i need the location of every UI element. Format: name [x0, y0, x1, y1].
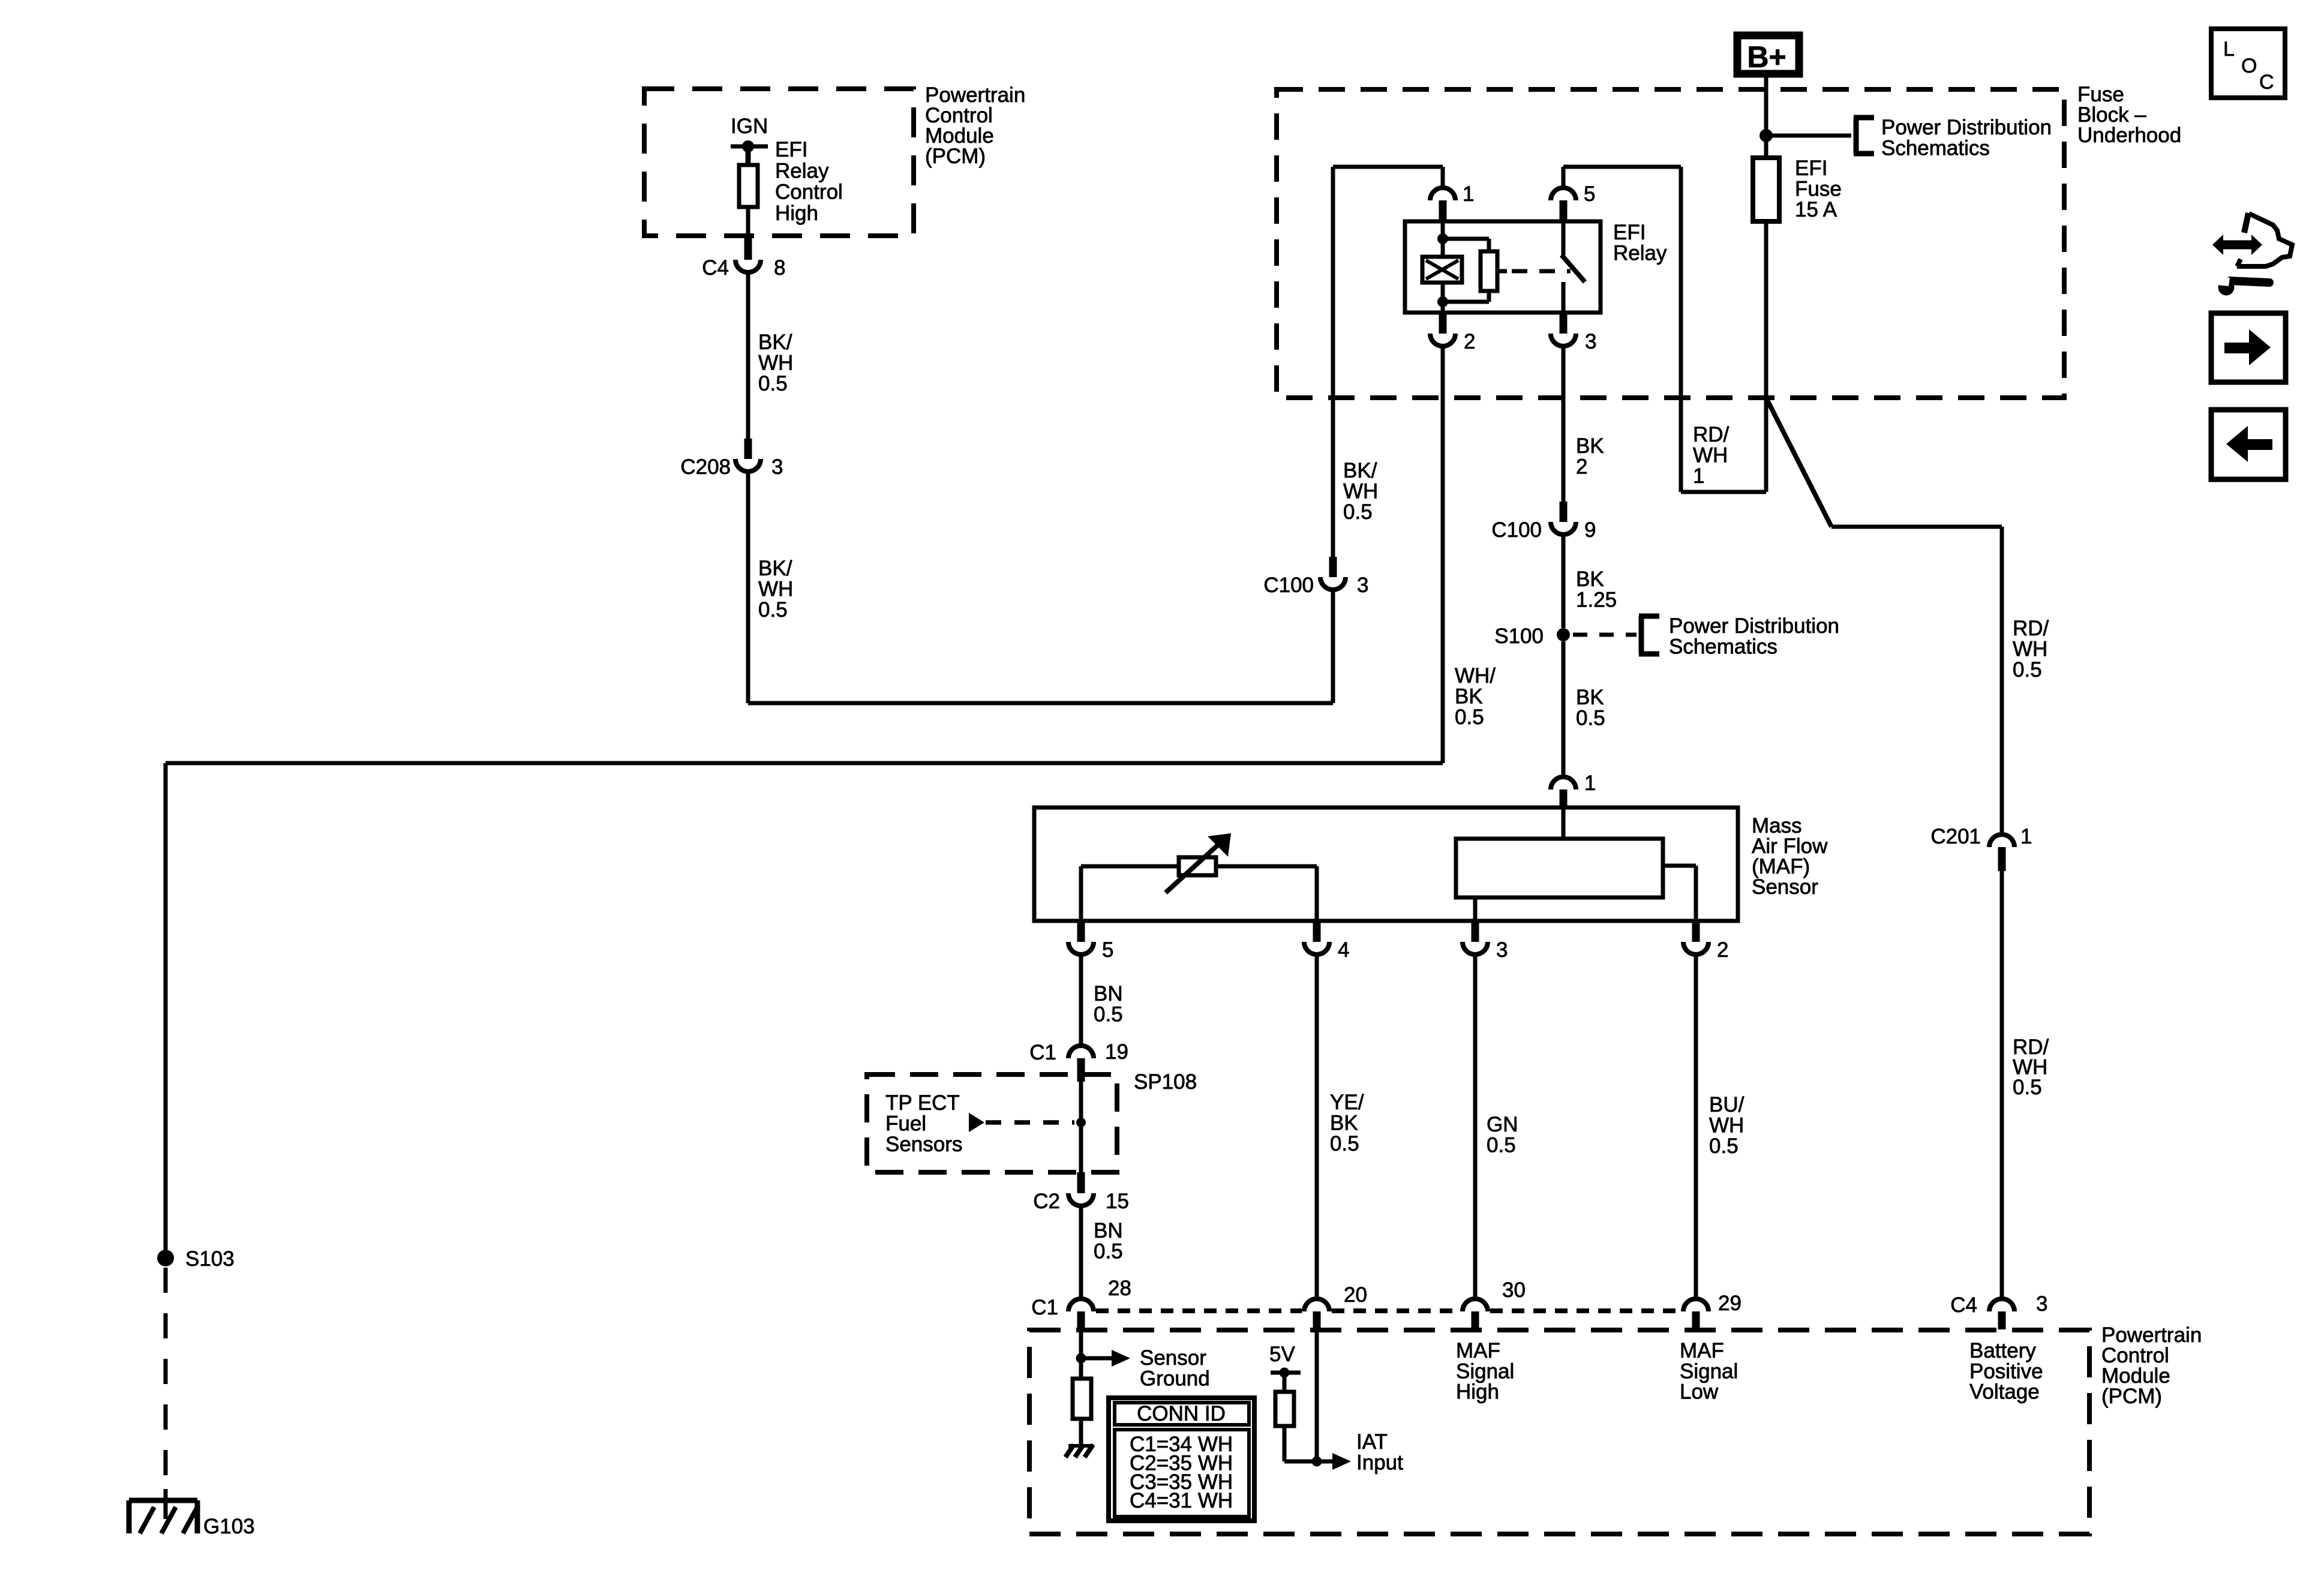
svg-text:Underhood: Underhood: [2077, 124, 2181, 147]
svg-text:0.5: 0.5: [1576, 707, 1605, 730]
svg-text:9: 9: [1584, 518, 1596, 542]
svg-text:Fuse: Fuse: [1795, 178, 1842, 201]
svg-text:Input: Input: [1356, 1451, 1403, 1475]
svg-text:CONN ID: CONN ID: [1137, 1402, 1226, 1425]
svg-text:1: 1: [1693, 464, 1704, 488]
svg-text:Sensors: Sensors: [885, 1133, 962, 1156]
svg-text:High: High: [775, 202, 818, 225]
svg-text:L: L: [2223, 38, 2235, 61]
svg-text:0.5: 0.5: [1487, 1134, 1516, 1157]
svg-text:0.5: 0.5: [758, 372, 788, 395]
svg-text:Sensor: Sensor: [1752, 875, 1818, 899]
svg-text:0.5: 0.5: [2013, 1076, 2042, 1099]
svg-text:BK/: BK/: [758, 557, 792, 580]
svg-text:MAF: MAF: [1680, 1339, 1724, 1362]
svg-text:BK: BK: [1330, 1112, 1358, 1135]
svg-text:C100: C100: [1491, 518, 1542, 542]
svg-text:Power Distribution: Power Distribution: [1881, 116, 2052, 139]
svg-text:WH: WH: [1693, 444, 1728, 467]
svg-text:O: O: [2241, 55, 2257, 77]
svg-text:0.5: 0.5: [1094, 1003, 1123, 1026]
svg-text:2: 2: [1576, 455, 1587, 479]
svg-text:Signal: Signal: [1680, 1359, 1738, 1383]
svg-text:C201: C201: [1930, 825, 1981, 848]
svg-text:0.5: 0.5: [2013, 658, 2042, 682]
svg-text:S100: S100: [1494, 625, 1544, 648]
svg-text:2: 2: [1717, 938, 1728, 962]
svg-text:S103: S103: [185, 1247, 235, 1271]
svg-text:BU/: BU/: [1709, 1093, 1744, 1116]
svg-text:RD/: RD/: [1693, 423, 1730, 446]
svg-text:20: 20: [1344, 1283, 1367, 1307]
svg-text:SP108: SP108: [1134, 1070, 1197, 1094]
svg-text:3: 3: [1585, 330, 1596, 353]
svg-text:15: 15: [1106, 1190, 1129, 1213]
svg-text:Sensor: Sensor: [1140, 1346, 1206, 1370]
svg-text:Relay: Relay: [1613, 242, 1667, 265]
svg-text:RD/: RD/: [2013, 617, 2049, 640]
svg-text:Power Distribution: Power Distribution: [1669, 614, 1839, 638]
svg-text:8: 8: [774, 256, 785, 280]
svg-text:28: 28: [1108, 1277, 1131, 1300]
svg-text:3: 3: [1496, 938, 1508, 962]
svg-text:(PCM): (PCM): [925, 145, 986, 168]
svg-text:BK: BK: [1576, 434, 1604, 458]
svg-text:Signal: Signal: [1456, 1359, 1514, 1383]
svg-text:30: 30: [1502, 1278, 1526, 1302]
svg-text:29: 29: [1718, 1292, 1742, 1315]
svg-text:19: 19: [1105, 1040, 1128, 1064]
svg-text:MAF: MAF: [1456, 1339, 1500, 1362]
svg-text:15 A: 15 A: [1795, 198, 1837, 221]
svg-text:1: 1: [1584, 772, 1596, 795]
svg-text:Voltage: Voltage: [1969, 1380, 2040, 1404]
svg-text:High: High: [1456, 1380, 1499, 1404]
svg-text:C2: C2: [1033, 1190, 1060, 1213]
svg-text:3: 3: [771, 455, 783, 479]
svg-text:WH: WH: [758, 578, 793, 601]
svg-text:Relay: Relay: [775, 159, 829, 182]
svg-text:Low: Low: [1680, 1380, 1719, 1404]
svg-text:Positive: Positive: [1969, 1359, 2043, 1383]
svg-text:3: 3: [2036, 1292, 2047, 1316]
svg-text:BK: BK: [1455, 685, 1483, 709]
svg-text:C1: C1: [1029, 1041, 1056, 1064]
svg-text:EFI: EFI: [1795, 157, 1827, 180]
svg-text:0.5: 0.5: [758, 598, 788, 622]
svg-text:EFI: EFI: [1613, 221, 1646, 244]
svg-text:BN: BN: [1094, 982, 1123, 1005]
svg-text:C4: C4: [1950, 1293, 1977, 1317]
svg-text:4: 4: [1338, 938, 1349, 962]
svg-text:Schematics: Schematics: [1881, 137, 1990, 160]
svg-text:WH: WH: [1709, 1114, 1744, 1137]
svg-text:0.5: 0.5: [1343, 500, 1373, 524]
svg-text:2: 2: [1464, 330, 1475, 353]
svg-text:BK: BK: [1576, 686, 1604, 709]
svg-text:WH/: WH/: [1455, 664, 1496, 688]
svg-text:1: 1: [2020, 825, 2032, 848]
svg-text:C1: C1: [1031, 1296, 1058, 1319]
svg-text:(PCM): (PCM): [2101, 1385, 2162, 1408]
svg-text:Schematics: Schematics: [1669, 635, 1777, 659]
svg-text:C4: C4: [702, 256, 729, 280]
svg-text:0.5: 0.5: [1330, 1132, 1359, 1155]
svg-text:B+: B+: [1747, 40, 1786, 74]
svg-text:G103: G103: [203, 1515, 255, 1538]
svg-text:5: 5: [1102, 938, 1113, 962]
svg-text:YE/: YE/: [1330, 1091, 1364, 1114]
svg-text:C208: C208: [680, 455, 731, 479]
svg-text:WH: WH: [1343, 480, 1378, 503]
svg-text:EFI: EFI: [775, 138, 807, 161]
svg-text:GN: GN: [1487, 1113, 1518, 1136]
svg-text:TP ECT: TP ECT: [885, 1091, 960, 1115]
svg-text:Fuel: Fuel: [885, 1112, 926, 1136]
svg-text:IGN: IGN: [731, 115, 768, 138]
svg-text:C: C: [2259, 71, 2274, 94]
svg-text:IAT: IAT: [1356, 1430, 1388, 1454]
svg-text:WH: WH: [2013, 638, 2047, 661]
svg-text:BK: BK: [1576, 568, 1604, 591]
svg-text:C4=31 WH: C4=31 WH: [1130, 1489, 1233, 1512]
svg-text:5V: 5V: [1269, 1343, 1295, 1366]
svg-text:Ground: Ground: [1140, 1367, 1210, 1391]
svg-text:BK/: BK/: [1343, 459, 1377, 482]
svg-text:C100: C100: [1263, 574, 1314, 597]
svg-text:5: 5: [1584, 182, 1595, 206]
svg-text:0.5: 0.5: [1455, 706, 1484, 729]
svg-text:0.5: 0.5: [1709, 1134, 1739, 1158]
svg-text:BK/: BK/: [758, 331, 792, 354]
svg-text:1.25: 1.25: [1576, 589, 1617, 612]
svg-text:1: 1: [1463, 182, 1474, 206]
svg-text:WH: WH: [758, 352, 793, 375]
svg-text:Control: Control: [775, 181, 843, 204]
svg-text:BN: BN: [1094, 1219, 1123, 1242]
svg-text:3: 3: [1357, 574, 1368, 597]
svg-text:Battery: Battery: [1969, 1339, 2036, 1362]
svg-text:0.5: 0.5: [1094, 1240, 1123, 1263]
